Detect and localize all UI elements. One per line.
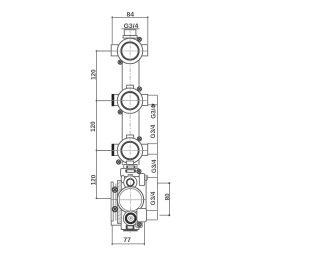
right connector block upper [139, 174, 144, 186]
bottom thin bar [123, 229, 137, 231]
right connector block lower [137, 208, 147, 221]
top port tab [128, 175, 133, 177]
dimension 84 [112, 16, 148, 44]
valve port 2 [97, 85, 148, 114]
arrow blob [152, 104, 156, 107]
right dimension chain G3/4 [146, 95, 169, 220]
body tube segment 2-3 [122, 110, 139, 140]
black cap [112, 144, 114, 156]
left connector (open) [111, 45, 118, 56]
right connector [141, 144, 148, 155]
svg-text:120: 120 [90, 174, 97, 185]
right connector [141, 45, 148, 56]
centerline [97, 100, 148, 102]
valve port 1 [97, 37, 148, 64]
left connector plugged [114, 144, 118, 155]
plate screw bottom [112, 207, 117, 212]
inner ring [121, 92, 138, 109]
outer circle [117, 138, 142, 163]
screw bottom-left [117, 160, 121, 164]
leader underline [122, 28, 140, 30]
outer circle [117, 88, 142, 113]
centerlines inside [118, 50, 142, 52]
svg-text:120: 120 [90, 121, 97, 132]
bottom tab [127, 161, 134, 165]
left connector plugged [114, 94, 118, 105]
bottom body outline [121, 222, 139, 230]
black cap [112, 94, 114, 106]
left dimension chain 120/120/120 [97, 51, 112, 199]
inner dark rect [125, 169, 136, 173]
plate mid line [115, 184, 117, 221]
svg-text:120: 120 [91, 69, 98, 80]
crosshair [119, 199, 144, 201]
valve port 3 [97, 135, 148, 165]
dimension 77 [112, 222, 144, 245]
svg-text:77: 77 [123, 237, 131, 244]
right connector [141, 94, 148, 105]
bottom assembly [111, 165, 147, 232]
screw bottom-left [118, 60, 122, 64]
inner ring [121, 142, 138, 159]
bottom port [123, 211, 138, 226]
top tab [127, 135, 134, 138]
screw top-right [137, 137, 141, 141]
top stub [123, 30, 137, 38]
screw top-right [137, 37, 141, 41]
screw block bottom right [136, 222, 142, 227]
svg-text:G3/4: G3/4 [150, 191, 157, 205]
body bottom-left step [111, 221, 121, 225]
top tab [127, 85, 134, 88]
svg-text:G3/4: G3/4 [150, 124, 157, 138]
screw bottom-left [118, 110, 122, 114]
screw right of mechanism [137, 169, 141, 173]
centerlines inside [118, 150, 142, 152]
left oval [121, 175, 124, 183]
centerline horizontal [111, 198, 146, 200]
svg-text:G3/4: G3/4 [151, 105, 158, 119]
body tube segment 1-2 [122, 60, 139, 90]
svg-text:80: 80 [164, 193, 171, 201]
inner ring [121, 42, 138, 59]
screw top-right [137, 87, 141, 91]
stub centerline [129, 30, 131, 38]
svg-text:84: 84 [127, 12, 135, 19]
vertical centerline [129, 29, 131, 233]
left thin plate [111, 182, 113, 221]
big circle [117, 187, 143, 213]
centerline [97, 150, 148, 152]
right body edge [145, 176, 147, 222]
centerline [97, 50, 148, 52]
body tube below 3 [122, 160, 139, 165]
top port [124, 176, 137, 189]
centerlines inside [118, 100, 142, 102]
dimension 80 [159, 183, 169, 215]
outer circle [117, 38, 142, 63]
end cap upper [145, 175, 148, 180]
bottom dark block [126, 225, 135, 230]
dark insert [126, 166, 135, 169]
mechanism block [121, 168, 140, 176]
stub under port3 [124, 165, 137, 169]
svg-text:G3/4: G3/4 [151, 159, 158, 173]
top tab [127, 38, 134, 41]
bracket strip [117, 181, 121, 224]
plate screw top [112, 187, 117, 192]
